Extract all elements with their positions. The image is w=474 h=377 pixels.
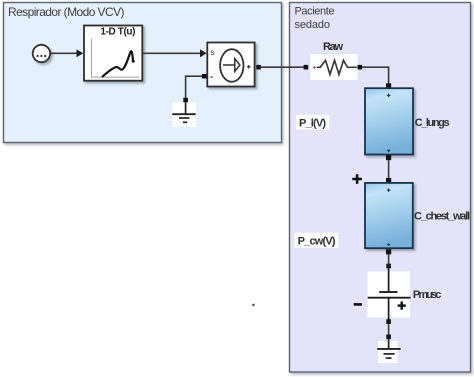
lookup table curve [102,51,133,77]
ground block (right) [378,341,398,363]
svg-text:Paciente: Paciente [295,6,335,18]
port: Pmusc top [386,264,391,269]
wire: resistor to C_lungs [362,67,389,83]
svg-text:Respirador (Modo VCV): Respirador (Modo VCV) [8,5,125,19]
wire: source to Raw resistor [261,66,304,68]
resistor Raw icon background [310,54,357,80]
svg-text:C_lungs: C_lungs [415,117,450,129]
wire: lookup table to controlled source [143,52,200,54]
wire: circle to lookup table [51,52,77,54]
svg-text:Pmusc: Pmusc [413,289,442,301]
port: C_lungs top [386,83,391,88]
port: resistor left [304,65,309,70]
stray annotation dot [252,304,255,307]
wire: C_lungs to C_chest_wall [388,160,390,178]
port: C_lungs bottom [386,155,391,160]
polarity mark + (red) [313,66,316,69]
ground block (left) [173,103,197,128]
port: C_chest_wall top [386,178,391,183]
source ellipse with arrow [220,49,243,82]
svg-text:s: s [210,47,214,57]
svg-text:sedado: sedado [295,19,331,31]
Pmusc battery symbol [388,268,390,292]
svg-text:Raw: Raw [323,41,343,53]
capacitor C_lungs [365,88,413,154]
port: ground top (left panel) [183,98,188,103]
source block: constant circle (...) [33,45,50,62]
lookup table axes [92,39,140,77]
lookup table block 1-D T(u) [84,26,142,81]
port: resistor right [358,65,363,70]
resistor zigzag [317,60,357,74]
wire: Pmusc to ground [388,324,390,335]
polarity plus [398,302,406,310]
port: ground (right) top [386,335,391,340]
area panel: Respirador (Modo VCV) [4,3,282,143]
svg-text:C_chest_wall: C_chest_wall [414,211,470,223]
label: P_cw(V) [295,233,339,248]
wire: C_chest_wall to Pmusc [388,254,390,264]
capacitor C_chest_wall [365,183,413,248]
svg-text:P_l(V): P_l(V) [299,118,326,130]
polarity minus [354,303,362,306]
label: P_l(V) [296,115,330,130]
pressure source Pmusc icon background [368,272,411,318]
node plus sign [352,174,362,184]
port: source plus output [256,65,261,70]
svg-text:1-D T(u): 1-D T(u) [100,27,135,38]
area panel: Paciente sedado [290,3,471,373]
svg-text:P_cw(V): P_cw(V) [298,236,336,248]
pin label + [247,65,251,69]
controlled flow-rate source U1 [207,43,254,87]
port: source minus [202,74,207,79]
port: Pmusc bottom [386,319,391,324]
pin label - [210,76,212,78]
port: C_chest_wall bottom [386,249,391,254]
wire: minus port to ground [186,76,202,98]
